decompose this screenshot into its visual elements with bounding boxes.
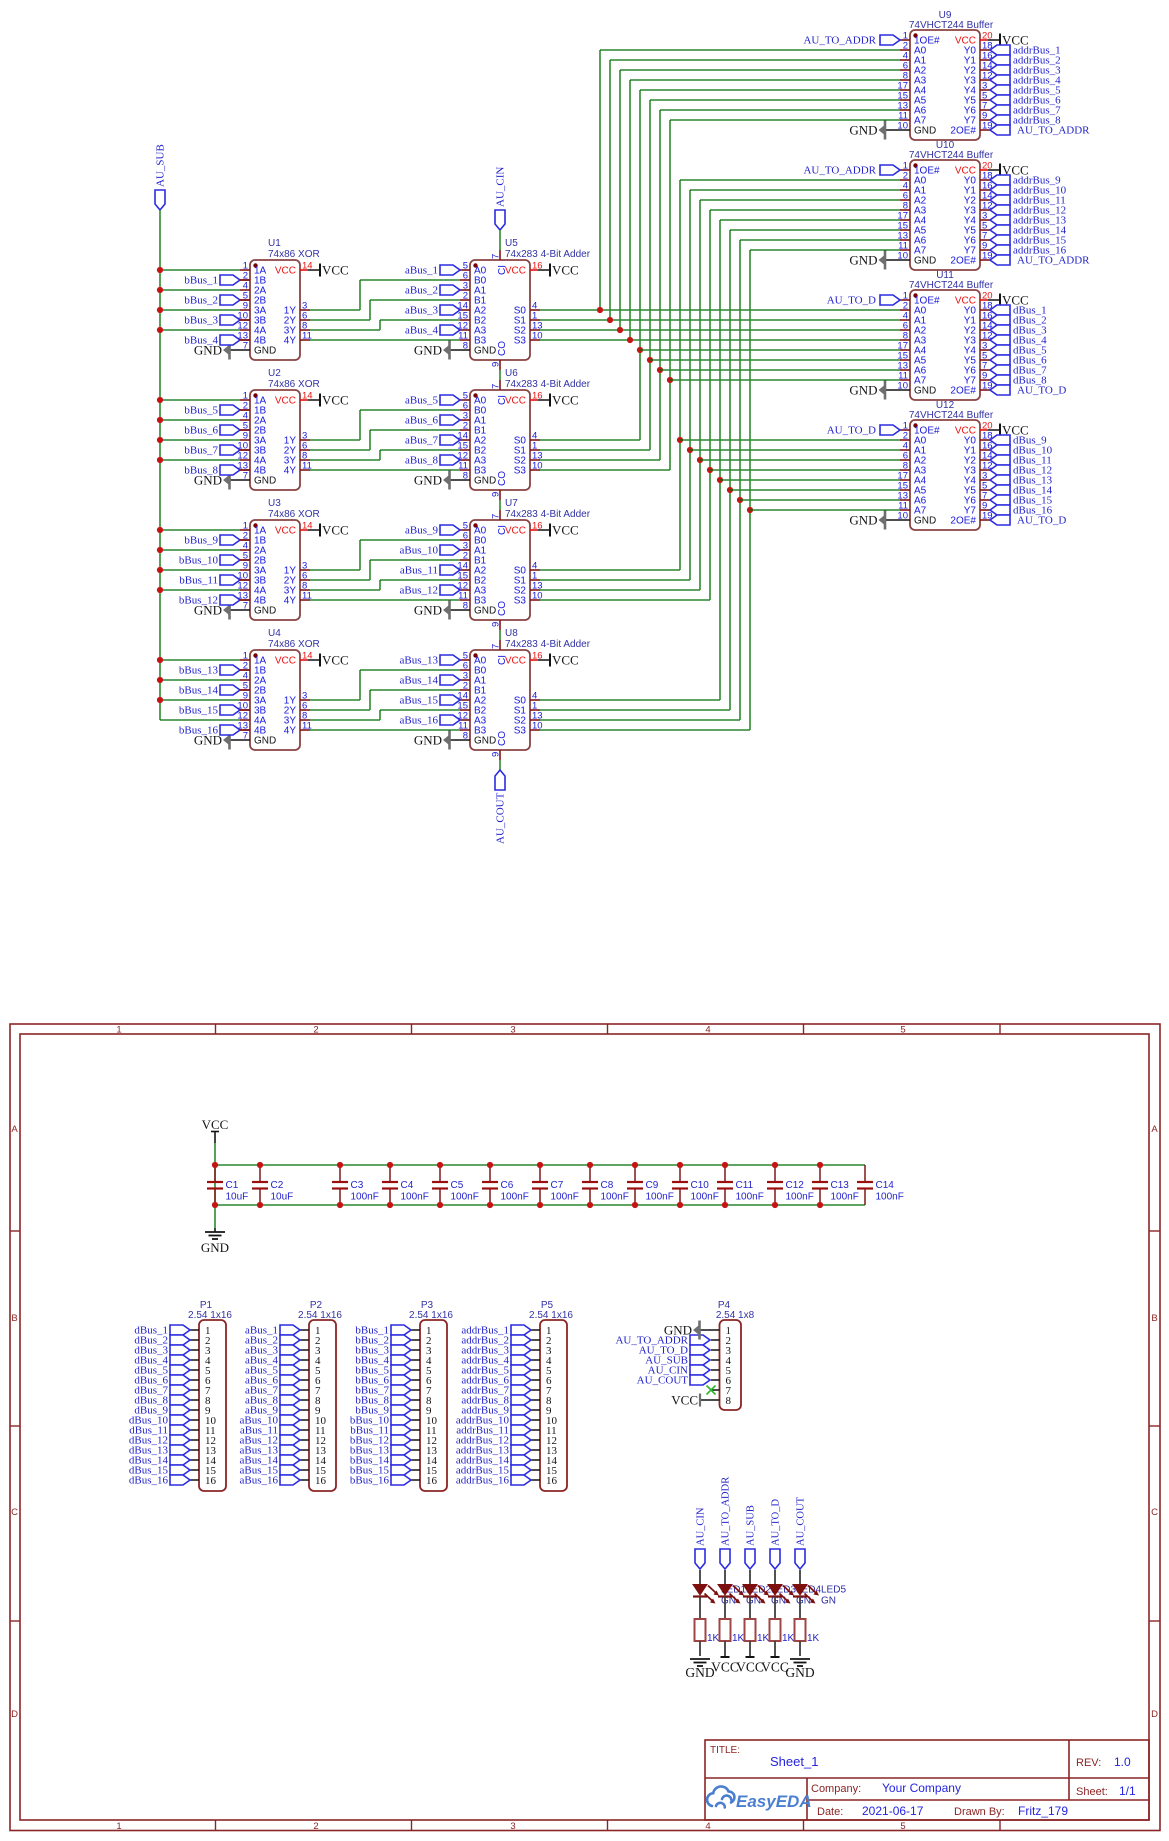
P1 pin 10 wire [190, 1419, 199, 1421]
U1 pin 6 (2Y) [300, 319, 310, 321]
net label bBus_11 [350, 1425, 389, 1437]
U8 pin 12 (A3) [460, 719, 470, 721]
net flag aBus_5 [440, 395, 460, 405]
U5 pin 6 (B0) [460, 279, 470, 281]
net label dBus_10 [129, 1415, 169, 1427]
junction AU_SUB [157, 527, 163, 533]
svg-text:100nF: 100nF [551, 1192, 579, 1203]
wire to U10.A4 [720, 219, 900, 221]
net label dBus_6 [134, 1375, 168, 1387]
U1 pin B input [240, 299, 250, 301]
svg-text:VCC: VCC [505, 266, 526, 277]
net label addrBus_6 [461, 1375, 509, 1387]
net label bBus_11 [179, 575, 218, 587]
junction bus [597, 307, 603, 313]
U1 pin 13 (4B) [240, 339, 250, 341]
svg-text:CI: CI [497, 395, 508, 405]
net label AU_COUT at LED5 [796, 1496, 807, 1546]
U12 pin 1 (1OE#) [900, 429, 910, 431]
net flag addrBus_8 at P5 [511, 1395, 531, 1405]
resistor R5 [795, 1619, 820, 1644]
U10 pin 8 (A3) [900, 209, 910, 211]
net flag addrBus_10 [990, 185, 1010, 195]
U12 pin 9 (Y7) [980, 509, 990, 511]
U2 pin 9 (3A) [240, 439, 250, 441]
P5 pin 10 wire [531, 1419, 540, 1421]
wire U3.1Y [310, 569, 360, 571]
svg-text:74VHCT244 Buffer: 74VHCT244 Buffer [909, 150, 994, 161]
svg-text:74x283 4-Bit Adder: 74x283 4-Bit Adder [505, 249, 591, 260]
net label bBus_16 [179, 725, 219, 737]
svg-text:AU_CIN: AU_CIN [495, 167, 507, 207]
74x86 XOR U4 body [250, 650, 300, 750]
U5 pin 9 (CO) [499, 360, 501, 370]
P4 pin 4 wire [711, 1359, 720, 1361]
power VCC at U12 [1000, 423, 1029, 438]
wire jog U4.3Y [379, 710, 381, 720]
power VCC at U5 [550, 263, 579, 278]
net label bBus_5 [355, 1365, 389, 1377]
net flag addrBus_11 at P5 [511, 1425, 531, 1435]
U9 part name [909, 20, 994, 31]
wire U8.S1 [540, 709, 730, 711]
wire AU_SUB to U1 input 1A [160, 269, 240, 271]
net label AU_CIN [495, 167, 507, 207]
U5 pin 7 (CI) [499, 250, 501, 260]
P3 pin 15 wire [411, 1469, 420, 1471]
U11 pin 7 (Y6) [980, 369, 990, 371]
net label bBus_4 [184, 335, 218, 347]
U4 pin 8 (3Y) [300, 719, 310, 721]
junction C4 top [387, 1162, 393, 1168]
svg-text:AU_TO_D: AU_TO_D [1017, 515, 1066, 527]
svg-text:VCC: VCC [552, 653, 579, 668]
net flag aBus_3 [440, 305, 460, 315]
wire to U10.A6 [740, 239, 900, 241]
net flag dBus_6 at P1 [170, 1375, 190, 1385]
net label addrBus_12 [1013, 205, 1066, 217]
U2 pin B input [240, 449, 250, 451]
svg-text:CI: CI [497, 265, 508, 275]
U1 pin 5 (2B) [240, 299, 250, 301]
P2 pin 6 wire [300, 1379, 309, 1381]
net label dBus_9 [134, 1405, 168, 1417]
connector P1 reference [200, 1300, 213, 1311]
net label addrBus_14 [456, 1455, 510, 1467]
U5 CO pin number [491, 362, 502, 367]
net flag aBus_6 [440, 415, 460, 425]
svg-text:AU_TO_ADDR: AU_TO_ADDR [721, 1477, 732, 1546]
power VCC at U9 [1000, 33, 1029, 48]
svg-text:10: 10 [532, 331, 543, 342]
ground at U8 [414, 731, 450, 750]
net label dBus_14 [1013, 485, 1053, 497]
svg-text:TITLE:: TITLE: [710, 1745, 740, 1756]
svg-text:U7: U7 [505, 498, 518, 509]
junction bus [617, 327, 623, 333]
wire to U12.A5 [730, 489, 900, 491]
net flag bBus_15 [220, 705, 240, 715]
U12 pin 19 (2OE#) [980, 519, 990, 521]
net label aBus_2 [245, 1335, 278, 1347]
net label aBus_2 [405, 285, 438, 297]
net flag bBus_13 at P3 [391, 1445, 411, 1455]
svg-text:1K: 1K [732, 1633, 745, 1644]
74x283 adder U5 body [470, 260, 530, 360]
svg-text:VCC: VCC [322, 653, 349, 668]
U5 reference [505, 238, 518, 249]
U2 part name [268, 379, 320, 390]
net label addrBus_4 [1013, 75, 1061, 87]
wire U5.S0 to U11.A0 [540, 309, 900, 311]
svg-text:10uF: 10uF [226, 1192, 249, 1203]
wire AU_SUB to U3 input 2A [160, 549, 240, 551]
P5 pin 13 wire [531, 1449, 540, 1451]
U10 pin 10 (GND) wire [886, 259, 910, 261]
svg-text:100nF: 100nF [876, 1192, 904, 1203]
svg-text:VCC: VCC [552, 523, 579, 538]
net label dBus_7 [134, 1385, 168, 1397]
svg-text:aBus_2: aBus_2 [405, 285, 438, 297]
svg-text:8: 8 [463, 731, 468, 742]
net flag bBus_7 at P3 [391, 1385, 411, 1395]
U7 reference [505, 498, 518, 509]
no-connect X at P4 pin 7 [707, 1386, 716, 1395]
wire to U10.A0 [680, 179, 900, 181]
net flag addrBus_4 [990, 75, 1010, 85]
net flag bBus_4 at P3 [391, 1355, 411, 1365]
U4 pin 14 (VCC) [300, 659, 308, 661]
74VHCT244 buffer U9 body [910, 30, 980, 140]
U6 pin 8 (GND) wire [450, 479, 470, 481]
net flag dBus_16 at P1 [170, 1475, 190, 1485]
U12 pin 20 (VCC) [980, 429, 988, 431]
net flag AU_CIN at P4 [690, 1365, 710, 1375]
svg-text:S3: S3 [514, 596, 527, 607]
connector P5 body [540, 1320, 567, 1491]
net flag dBus_16 [990, 505, 1010, 515]
U1 pin 2 (1B) [240, 279, 250, 281]
ground at LED5 [785, 1659, 814, 1680]
U4 reference [268, 628, 281, 639]
wire U7.S0 [540, 569, 680, 571]
svg-text:aBus_10: aBus_10 [400, 545, 439, 557]
U10 pin 18 (Y0) [980, 179, 990, 181]
74VHCT244 buffer U10 body [910, 160, 980, 270]
net label bBus_6 [184, 425, 218, 437]
U5 pin 5 (A0) [460, 269, 470, 271]
svg-text:AU_COUT: AU_COUT [796, 1496, 807, 1546]
svg-text:100nF: 100nF [351, 1192, 379, 1203]
net label addrBus_2 [461, 1335, 509, 1347]
sheet frame border [10, 1024, 1160, 1831]
wire vertical bit14 [729, 230, 731, 710]
svg-text:bBus_3: bBus_3 [184, 315, 218, 327]
U12 pin 12 (Y3) [980, 469, 990, 471]
net label bBus_9 [184, 535, 218, 547]
P3 pin 8 wire [411, 1399, 420, 1401]
svg-text:C: C [1151, 1507, 1158, 1518]
net flag dBus_9 [990, 435, 1010, 445]
svg-text:bBus_9: bBus_9 [184, 535, 218, 547]
junction AU_SUB [157, 307, 163, 313]
U10 reference [936, 140, 955, 151]
net flag dBus_14 [990, 485, 1010, 495]
svg-text:C1: C1 [226, 1180, 239, 1191]
wire U7.S2 [540, 589, 700, 591]
svg-text:Your Company: Your Company [882, 1781, 961, 1795]
svg-text:AU_TO_ADDR: AU_TO_ADDR [803, 35, 876, 47]
net flag bBus_1 at P3 [391, 1325, 411, 1335]
net flag aBus_1 at P2 [280, 1325, 300, 1335]
U4 pin 12 (4A) [240, 719, 250, 721]
junction AU_SUB [157, 697, 163, 703]
net label aBus_6 [405, 415, 439, 427]
svg-text:74x283 4-Bit Adder: 74x283 4-Bit Adder [505, 639, 591, 650]
svg-text:4Y: 4Y [284, 336, 297, 347]
U9 pin 4 (A1) [900, 59, 910, 61]
net label addrBus_6 [1013, 95, 1061, 107]
net flag aBus_14 at P2 [280, 1455, 300, 1465]
P2 pin 1 wire [300, 1329, 309, 1331]
svg-text:100nF: 100nF [401, 1192, 429, 1203]
net label AU_TO_D [1017, 385, 1066, 397]
junction C8 top [587, 1162, 593, 1168]
net label dBus_2 [1013, 315, 1047, 327]
svg-text:1/1: 1/1 [1119, 1784, 1136, 1798]
net label addrBus_14 [1013, 225, 1067, 237]
U1 VCC wire [308, 269, 320, 271]
resistor R1 [695, 1619, 720, 1644]
svg-text:REV:: REV: [1076, 1757, 1101, 1769]
net label addrBus_3 [461, 1345, 509, 1357]
wire LED2 to R2 [724, 1597, 726, 1620]
junction C5 top [437, 1162, 443, 1168]
U12 VCC wire [988, 429, 1000, 431]
title block revision [1114, 1755, 1131, 1769]
U8 pin 7 (CI) [499, 640, 501, 650]
U8 CI pin number [491, 644, 502, 649]
net flag dBus_1 at P1 [170, 1325, 190, 1335]
svg-text:GND: GND [914, 386, 936, 397]
U11 part name [909, 280, 994, 291]
wire carry CO-CI [499, 370, 501, 380]
net flag bBus_1 [220, 275, 240, 285]
net label aBus_8 [405, 455, 439, 467]
net label AU_TO_ADDR [615, 1335, 688, 1347]
svg-text:VCC: VCC [322, 393, 349, 408]
svg-text:C10: C10 [691, 1180, 710, 1191]
wire vertical bit12 [709, 210, 711, 600]
wire U2.4Y to U6.B3 [310, 469, 460, 471]
svg-text:aBus_14: aBus_14 [400, 675, 439, 687]
svg-text:aBus_9: aBus_9 [405, 525, 439, 537]
U8 pin 10 (S3) [530, 729, 540, 731]
power VCC at P4 [671, 1393, 700, 1408]
U6 pin 2 (B1) [460, 429, 470, 431]
junction AU_SUB [157, 457, 163, 463]
U5 pin 13 (S2) [530, 329, 540, 331]
svg-text:9: 9 [491, 752, 502, 757]
junction AU_SUB [157, 417, 163, 423]
svg-text:3: 3 [510, 1821, 515, 1832]
net flag aBus_16 at P2 [280, 1475, 300, 1485]
svg-text:aBus_16: aBus_16 [400, 715, 439, 727]
wire jog U1.2Y [369, 300, 371, 320]
net label dBus_13 [1013, 475, 1053, 487]
capacitor C9 [627, 1165, 674, 1205]
U9 pin 9 (Y7) [980, 119, 990, 121]
svg-text:VCC: VCC [275, 656, 296, 667]
net flag aBus_1 [440, 265, 460, 275]
net flag addrBus_3 [990, 65, 1010, 75]
svg-text:16: 16 [532, 651, 543, 662]
connector P2 reference [310, 1300, 323, 1311]
net flag addrBus_12 [990, 205, 1010, 215]
net label bBus_16 [350, 1475, 390, 1487]
net flag bBus_14 at P3 [391, 1455, 411, 1465]
U10 pin 9 (Y7) [980, 249, 990, 251]
74x283 adder U7 body [470, 520, 530, 620]
U4 pin 13 (4B) [240, 729, 250, 731]
U4 pin 10 (3B) [240, 709, 250, 711]
svg-text:2: 2 [313, 1025, 318, 1036]
junction AU_SUB [157, 397, 163, 403]
svg-text:aBus_13: aBus_13 [400, 655, 439, 667]
LED3 [743, 1585, 796, 1607]
U9 pin 11 (A7) [900, 119, 910, 121]
U12 part name [909, 410, 994, 421]
wire to U8.B1 [370, 689, 460, 691]
net label AU_COUT [495, 792, 507, 844]
net label aBus_13 [400, 655, 439, 667]
U9 reference [939, 10, 952, 21]
U6 pin 1 (S1) [530, 449, 540, 451]
U6 pin 10 (S3) [530, 469, 540, 471]
svg-text:C6: C6 [501, 1180, 514, 1191]
ground at LED1 [685, 1659, 714, 1680]
junction C13 top [817, 1162, 823, 1168]
net flag addrBus_8 [990, 115, 1010, 125]
net flag aBus_8 [440, 455, 460, 465]
net flag aBus_9 at P2 [280, 1405, 300, 1415]
U7 CI pin number [491, 514, 502, 519]
U8 pin 1 (S1) [530, 709, 540, 711]
P4 pin 2 wire [711, 1339, 720, 1341]
wire jog U2.1Y [359, 410, 361, 440]
P3 pin 5 wire [411, 1369, 420, 1371]
capacitor C4 [382, 1165, 429, 1205]
net label AU_TO_D [639, 1345, 688, 1357]
svg-text:GND: GND [254, 476, 276, 487]
svg-text:16: 16 [532, 261, 543, 272]
wire U2.3Y [310, 459, 380, 461]
svg-text:CO: CO [497, 471, 508, 486]
P1 pin 14 wire [190, 1459, 199, 1461]
junction bus [647, 357, 653, 363]
P4 pin 8 wire [700, 1399, 720, 1401]
U6 pin 15 (B2) [460, 449, 470, 451]
svg-text:100nF: 100nF [451, 1192, 479, 1203]
U12 pin 6 (A2) [900, 459, 910, 461]
wire to U12.A1 [690, 449, 900, 451]
U1 pin 10 (3B) [240, 319, 250, 321]
title block company value [882, 1781, 961, 1795]
net flag dBus_4 at P1 [170, 1355, 190, 1365]
wire LED1 to R1 [699, 1597, 701, 1620]
svg-text:U1: U1 [268, 238, 281, 249]
net flag dBus_11 [990, 455, 1010, 465]
P1 pin 12 wire [190, 1439, 199, 1441]
junction AU_SUB [157, 587, 163, 593]
U10 pin 2 (A0) [900, 179, 910, 181]
U8 reference [505, 628, 518, 639]
svg-text:aBus_16: aBus_16 [240, 1475, 279, 1487]
junction AU_SUB [157, 657, 163, 663]
wire U4.4Y to U8.B3 [310, 729, 460, 731]
svg-text:11: 11 [302, 331, 312, 342]
connector P1 part [188, 1310, 232, 1321]
wire vertical bit1 [599, 50, 601, 310]
U4 pin 7 (GND) wire [230, 739, 250, 741]
U3 pin 4 (2A) [240, 549, 250, 551]
U4 pin B input [240, 669, 250, 671]
U7 CI pin name [497, 525, 508, 535]
net flag addrBus_13 [990, 215, 1010, 225]
net label bBus_8 [355, 1395, 389, 1407]
U11 pin 6 (A2) [900, 329, 910, 331]
U11 pin 8 (A3) [900, 339, 910, 341]
U1 pin B input [240, 339, 250, 341]
P1 pin 5 wire [190, 1369, 199, 1371]
U3 pin 9 (3A) [240, 569, 250, 571]
U12 pin 15 (A5) [900, 489, 910, 491]
U9 VCC wire [988, 39, 1000, 41]
net flag addrBus_5 at P5 [511, 1365, 531, 1375]
power VCC at U7 [550, 523, 579, 538]
frame column number 2 top [313, 1025, 318, 1036]
svg-text:10: 10 [897, 251, 908, 262]
wire to U9.A3 [630, 79, 900, 81]
net label dBus_9 [1013, 435, 1047, 447]
net flag addrBus_16 [990, 245, 1010, 255]
net label addrBus_13 [1013, 215, 1067, 227]
wire vertical bit6 [649, 100, 651, 450]
U8 pin 9 (CO) [499, 750, 501, 760]
net flag dBus_15 [990, 495, 1010, 505]
74VHCT244 buffer U12 body [910, 420, 980, 530]
svg-text:C4: C4 [401, 1180, 414, 1191]
svg-text:C2: C2 [271, 1180, 284, 1191]
U3 pin B input [240, 579, 250, 581]
U6 pin 14 (A2) [460, 439, 470, 441]
wire AU_SUB to U2 input 1A [160, 399, 240, 401]
wire carry CO-CI [499, 500, 501, 510]
net flag AU_CIN [495, 210, 505, 230]
net flag bBus_2 at P3 [391, 1335, 411, 1345]
junction C10 bottom [677, 1202, 683, 1208]
svg-text:Sheet:: Sheet: [1076, 1786, 1108, 1798]
U1 pin 14 (VCC) [300, 269, 308, 271]
net flag addrBus_15 at P5 [511, 1465, 531, 1475]
svg-text:C12: C12 [786, 1180, 805, 1191]
net flag addrBus_9 at P5 [511, 1405, 531, 1415]
wire AU_SUB to U1 input 3A [160, 309, 240, 311]
svg-text:74x86 XOR: 74x86 XOR [268, 509, 320, 520]
P4 pin 6 wire [711, 1379, 720, 1381]
frame row letter C right [1151, 1507, 1158, 1518]
net flag AU_TO_D at P4 [690, 1345, 710, 1355]
